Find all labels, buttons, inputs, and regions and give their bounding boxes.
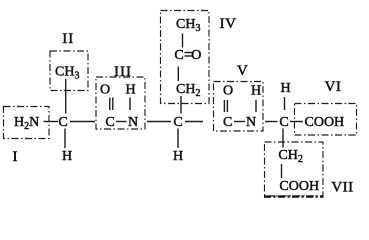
group H2N xyxy=(14,115,39,132)
svg-text:H: H xyxy=(125,83,135,98)
svg-text:N: N xyxy=(128,115,138,130)
wire bond CH2 to COOH in box VII xyxy=(281,164,283,178)
group CH3 xyxy=(55,65,79,82)
svg-text:C: C xyxy=(174,48,183,63)
svg-text:II: II xyxy=(62,31,74,47)
svg-text:H: H xyxy=(173,149,183,164)
box I (amino group) xyxy=(4,107,50,139)
group CH2 in box VII xyxy=(278,148,302,165)
atom N in box V xyxy=(246,115,256,130)
wire bond C to N in box V xyxy=(234,121,245,123)
double bond O to C in box V xyxy=(224,100,227,112)
wire bond H2N to C1 xyxy=(44,121,59,123)
atom O in box V xyxy=(223,84,233,99)
wire bond C to N in box III xyxy=(116,121,127,123)
wire bond C=O to CH2 xyxy=(177,67,179,82)
svg-text:I: I xyxy=(13,149,18,165)
wire bond CH3 to C1 xyxy=(65,79,67,114)
group CH2 in box IV xyxy=(176,82,200,99)
box VI (carboxyl group) xyxy=(295,104,357,136)
label VII xyxy=(331,179,353,195)
box III (peptide bond 1) xyxy=(96,77,145,129)
svg-text:C: C xyxy=(173,115,182,130)
atom C2 xyxy=(173,115,182,130)
svg-text:VI: VI xyxy=(325,79,342,95)
box VII thick bottom edge xyxy=(264,195,324,197)
label VI xyxy=(325,79,342,95)
svg-text:C: C xyxy=(279,115,288,130)
svg-text:H: H xyxy=(251,84,261,99)
label V xyxy=(237,63,248,79)
group COOH in box VII xyxy=(279,179,319,194)
label II xyxy=(62,31,74,47)
svg-text:O: O xyxy=(100,83,110,98)
wire bond C3 down to box VII xyxy=(282,129,284,148)
atom C in box V xyxy=(223,115,232,130)
svg-text:III: III xyxy=(114,64,132,80)
svg-text:COOH: COOH xyxy=(305,115,345,130)
atom C3 xyxy=(279,115,288,130)
box IV (R group side chain) xyxy=(161,11,210,104)
atom H below C2 xyxy=(173,149,183,164)
label I xyxy=(13,149,18,165)
wire bond box III to C2 xyxy=(147,121,171,123)
svg-text:C: C xyxy=(105,115,114,130)
atom H above C3 xyxy=(281,81,291,96)
wire bond C1 to box III xyxy=(70,121,95,123)
double bond O to C xyxy=(110,98,113,111)
box VII (R group with carboxyl) xyxy=(265,142,324,196)
wire bond C1 to H xyxy=(64,129,66,149)
svg-text:O: O xyxy=(223,84,233,99)
atom N in box III xyxy=(128,115,138,130)
label IV xyxy=(220,16,237,32)
atom O of C=O xyxy=(191,48,201,63)
wire bond C2 to box V xyxy=(185,121,203,123)
box V (peptide bond 2) xyxy=(214,82,264,132)
atom O in box III xyxy=(100,83,110,98)
wire bond H to C3 xyxy=(284,97,286,110)
svg-text:VII: VII xyxy=(331,179,353,195)
svg-text:O: O xyxy=(191,48,201,63)
wire bond CH3 to C=O xyxy=(182,34,184,48)
atom C in box III xyxy=(105,115,114,130)
svg-text:C: C xyxy=(58,115,67,130)
svg-text:N: N xyxy=(246,115,256,130)
wire bond C2 to H xyxy=(177,129,179,149)
atom C1 xyxy=(58,115,67,130)
wire bond box V to C3 xyxy=(265,121,278,123)
svg-text:C: C xyxy=(223,115,232,130)
label III xyxy=(114,64,132,80)
group CH3 in box IV xyxy=(176,17,200,34)
wire bond H to N in box III xyxy=(129,98,131,111)
wire bond CH2 to C2 xyxy=(180,96,182,114)
wire bond H to N in box V xyxy=(255,100,257,112)
svg-text:H: H xyxy=(281,81,291,96)
atom H below C1 xyxy=(62,149,72,164)
wire bond C3 to COOH xyxy=(290,121,303,123)
atom H in box III xyxy=(125,83,135,98)
svg-text:V: V xyxy=(237,63,248,79)
box II (R group CH3) xyxy=(50,51,88,91)
atom H in box V xyxy=(251,84,261,99)
double bond C=O xyxy=(185,53,194,57)
svg-text:COOH: COOH xyxy=(279,179,319,194)
atom C of C=O xyxy=(174,48,183,63)
group COOH in box VI xyxy=(305,115,345,130)
svg-text:IV: IV xyxy=(220,16,237,32)
svg-text:H: H xyxy=(62,149,72,164)
